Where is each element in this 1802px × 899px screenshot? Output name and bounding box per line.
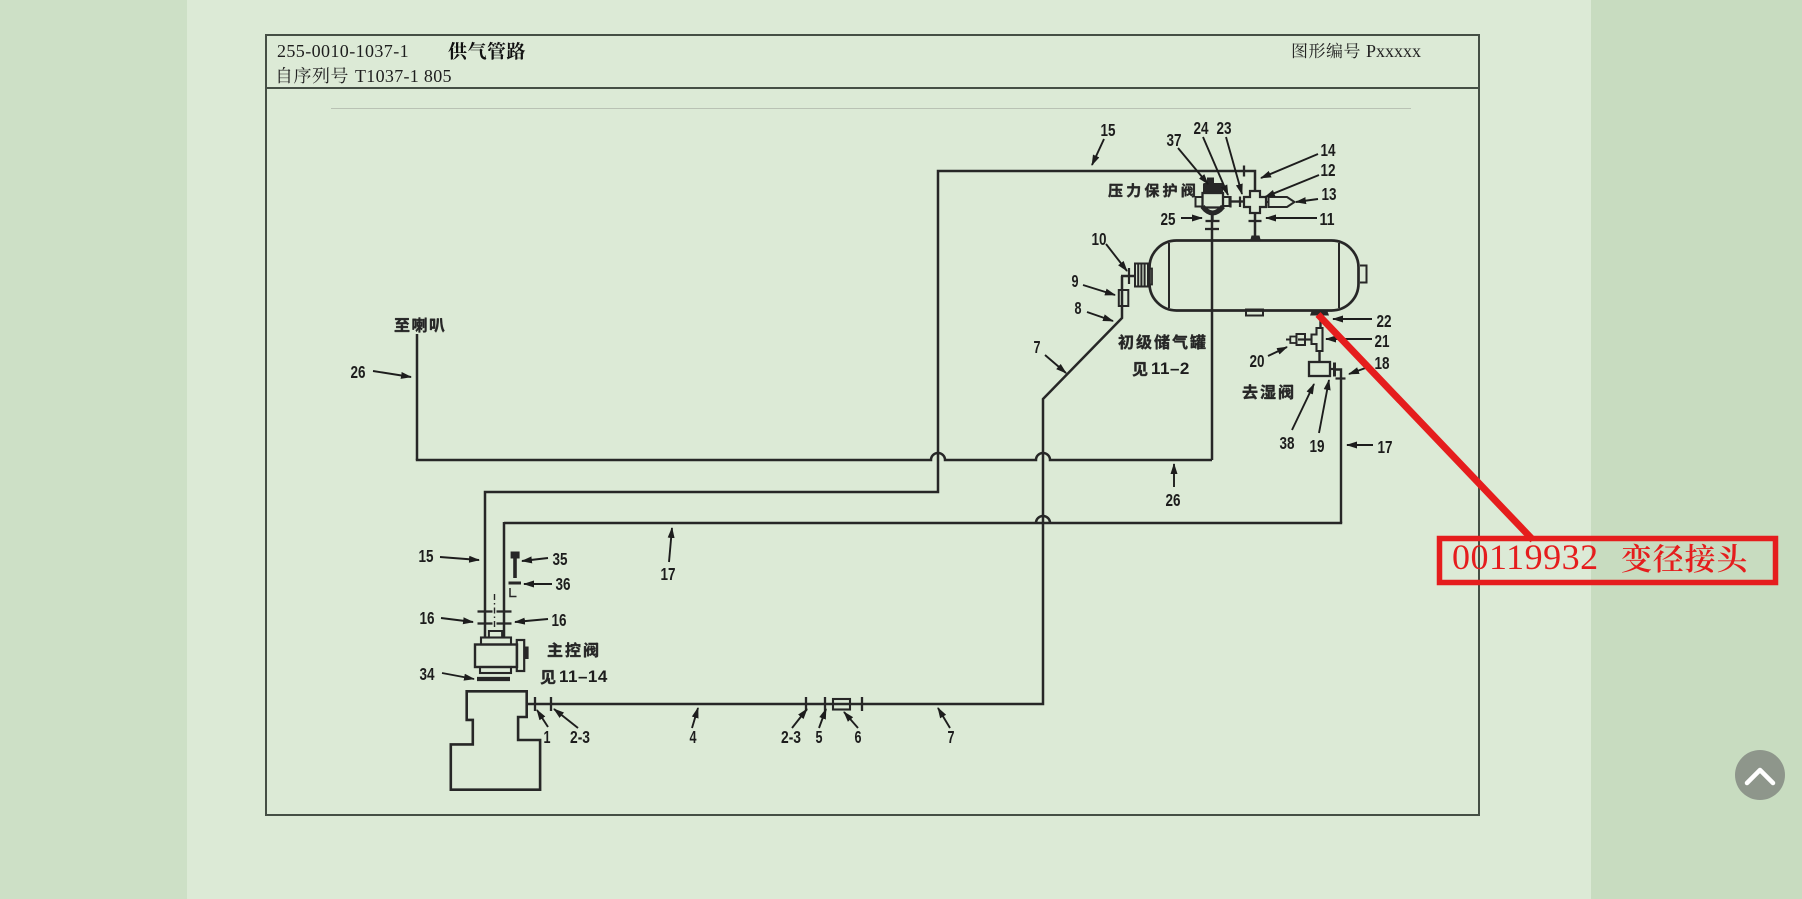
- svg-text:7: 7: [948, 727, 955, 747]
- svg-text:22: 22: [1377, 311, 1392, 331]
- svg-text:37: 37: [1167, 130, 1182, 150]
- svg-text:24: 24: [1194, 118, 1209, 138]
- svg-text:00119932: 00119932: [1452, 537, 1599, 577]
- svg-text:1: 1: [544, 727, 551, 747]
- svg-text:38: 38: [1280, 433, 1295, 453]
- svg-text:20: 20: [1250, 351, 1265, 371]
- svg-text:15: 15: [1101, 120, 1116, 140]
- svg-text:16: 16: [552, 610, 567, 630]
- svg-text:34: 34: [420, 664, 435, 684]
- svg-text:17: 17: [661, 564, 676, 584]
- svg-text:16: 16: [420, 608, 435, 628]
- svg-text:14: 14: [1321, 140, 1336, 160]
- svg-text:5: 5: [816, 727, 823, 747]
- svg-text:4: 4: [690, 727, 697, 747]
- svg-text:23: 23: [1217, 118, 1232, 138]
- svg-text:21: 21: [1375, 331, 1390, 351]
- svg-text:6: 6: [855, 727, 862, 747]
- svg-text:11–14: 11–14: [559, 667, 608, 686]
- svg-text:26: 26: [1166, 490, 1181, 510]
- svg-text:35: 35: [553, 549, 568, 569]
- svg-text:11–2: 11–2: [1151, 359, 1190, 378]
- svg-text:13: 13: [1322, 184, 1337, 204]
- svg-text:8: 8: [1075, 298, 1082, 318]
- svg-text:26: 26: [351, 362, 366, 382]
- svg-text:15: 15: [419, 546, 434, 566]
- svg-text:9: 9: [1072, 271, 1079, 291]
- svg-text:18: 18: [1375, 353, 1390, 373]
- svg-text:12: 12: [1321, 160, 1336, 180]
- svg-text:7: 7: [1034, 337, 1041, 357]
- svg-text:2-3: 2-3: [570, 727, 590, 747]
- svg-text:10: 10: [1092, 229, 1107, 249]
- svg-text:36: 36: [556, 574, 571, 594]
- svg-text:19: 19: [1310, 436, 1325, 456]
- svg-text:11: 11: [1320, 209, 1335, 229]
- svg-text:2-3: 2-3: [781, 727, 801, 747]
- svg-text:25: 25: [1161, 209, 1176, 229]
- svg-text:17: 17: [1378, 437, 1393, 457]
